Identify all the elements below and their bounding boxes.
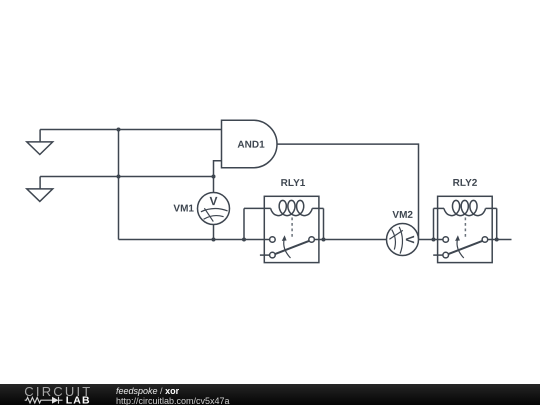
svg-text:VM1: VM1 — [173, 203, 194, 214]
svg-text:AND1: AND1 — [237, 140, 265, 151]
svg-text:VM2: VM2 — [392, 210, 413, 221]
svg-text:RLY1: RLY1 — [281, 178, 306, 189]
svg-text:V: V — [209, 194, 217, 208]
svg-text:LAB: LAB — [66, 395, 91, 405]
svg-text:RLY2: RLY2 — [453, 178, 478, 189]
svg-text:V: V — [403, 235, 417, 243]
